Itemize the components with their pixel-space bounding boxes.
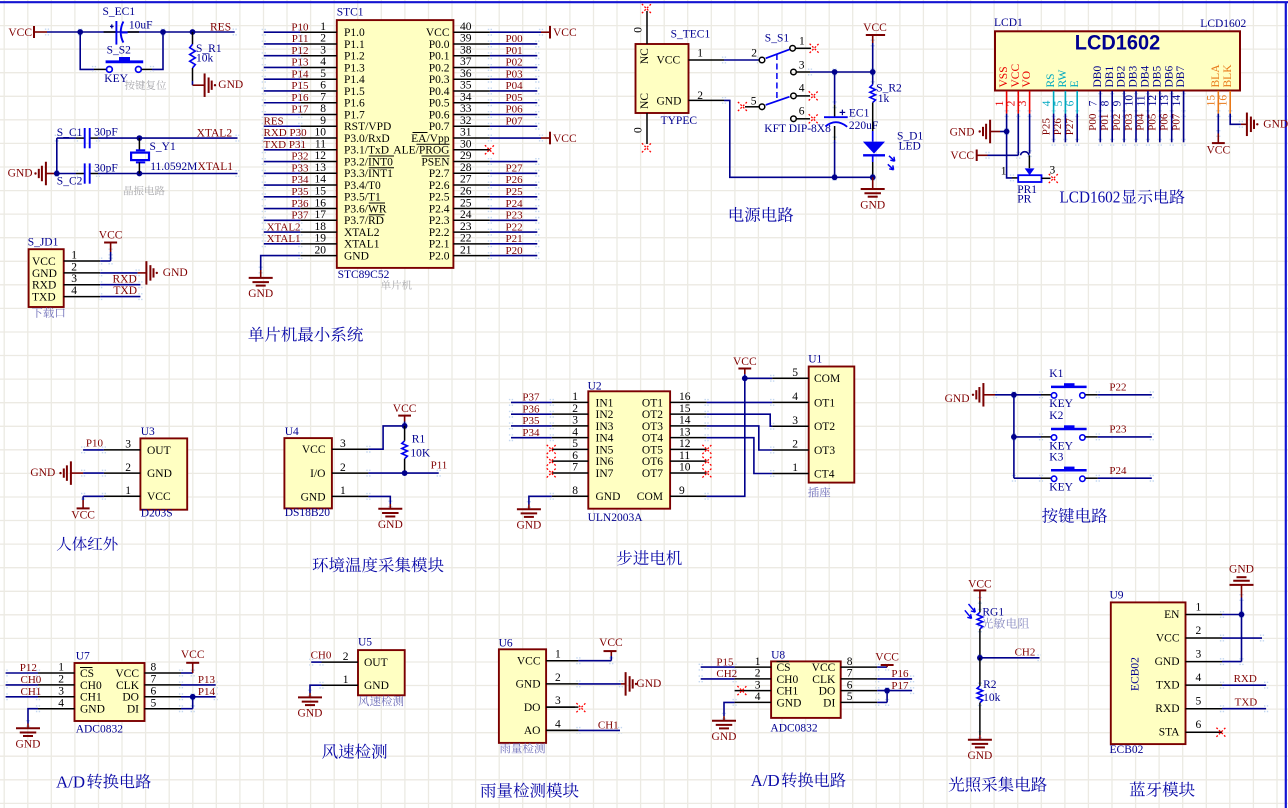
svg-text:0: 0	[633, 127, 645, 133]
caption 光照采集电路	[949, 777, 1047, 792]
svg-text:P14: P14	[198, 686, 216, 698]
caption 人体红外	[57, 537, 118, 551]
svg-text:29: 29	[460, 150, 472, 162]
wire P13 net (U7 pin7)	[181, 674, 216, 686]
svg-text:16: 16	[315, 197, 327, 209]
svg-text:9: 9	[1112, 100, 1124, 106]
svg-text:4: 4	[71, 285, 77, 297]
wire P10 net (U3 pin3)	[83, 438, 104, 450]
svg-text:P1.7: P1.7	[344, 109, 365, 121]
svg-text:10k: 10k	[983, 692, 1001, 704]
svg-text:14: 14	[1171, 95, 1183, 107]
svg-text:P06: P06	[506, 104, 524, 116]
svg-text:25: 25	[460, 197, 472, 209]
caption 按键电路	[1042, 508, 1107, 523]
wire TXD net (U9 pin5)	[1222, 697, 1266, 709]
svg-text:10uF: 10uF	[129, 20, 153, 32]
svg-text:COM: COM	[814, 373, 840, 385]
svg-text:1: 1	[125, 485, 131, 497]
wire reset key left branch	[80, 32, 106, 69]
power port VCC (stepper)	[733, 356, 757, 378]
svg-text:DB2: DB2	[1116, 66, 1128, 88]
svg-text:STC1: STC1	[337, 6, 364, 18]
pin 0 top of S_TEC1 with no-connect X	[633, 4, 652, 44]
svg-text:3: 3	[755, 679, 761, 691]
svg-text:P03: P03	[506, 68, 524, 80]
svg-text:1: 1	[58, 662, 64, 674]
no connect X (MCU pin30)	[485, 145, 494, 154]
svg-text:0: 0	[633, 27, 645, 33]
svg-text:KFT DIP-8X8: KFT DIP-8X8	[764, 123, 831, 135]
svg-text:GND: GND	[16, 739, 41, 751]
power port GND (light)	[967, 735, 992, 762]
caption 雨量检测模块	[481, 783, 579, 798]
svg-text:P01: P01	[1099, 114, 1111, 131]
svg-text:XTAL2: XTAL2	[267, 221, 301, 233]
svg-text:7: 7	[151, 674, 157, 686]
svg-text:8: 8	[847, 656, 853, 668]
wire VSS to PR1	[1001, 132, 1018, 178]
svg-text:TXD: TXD	[113, 285, 137, 297]
svg-text:P32: P32	[291, 151, 308, 163]
svg-text:19: 19	[315, 233, 327, 245]
svg-text:2: 2	[572, 403, 578, 415]
svg-text:AO: AO	[524, 725, 541, 737]
svg-text:A/D: A/D	[751, 771, 780, 790]
svg-text:3: 3	[125, 439, 131, 451]
svg-text:P17: P17	[891, 680, 909, 692]
svg-text:CH1: CH1	[21, 686, 42, 698]
caption 蓝牙模块	[1130, 782, 1195, 797]
resistor S_R2 1k	[870, 72, 902, 142]
wire CH2 net (light)	[980, 646, 1040, 658]
svg-text:NC: NC	[639, 48, 651, 64]
svg-text:P12: P12	[20, 662, 37, 674]
net labels P10-P17	[291, 21, 309, 115]
connector S_JD1	[28, 237, 64, 308]
svg-text:DB7: DB7	[1175, 66, 1187, 88]
svg-text:OT3: OT3	[642, 421, 663, 433]
wire CH2 net (U8 pin2)	[701, 668, 737, 680]
svg-text:P3.6/WR: P3.6/WR	[344, 203, 387, 215]
caption 插座	[808, 487, 830, 498]
wire U2 COM to VCC rail	[707, 378, 773, 496]
svg-text:VCC: VCC	[1206, 144, 1230, 156]
push button K3 KEY	[1014, 451, 1152, 493]
junction	[742, 375, 748, 381]
no connect X (U8 pin3)	[737, 686, 746, 695]
svg-text:5: 5	[792, 367, 798, 379]
power port VCC (light)	[968, 578, 992, 612]
svg-text:13: 13	[1159, 95, 1171, 107]
svg-text:12: 12	[679, 438, 691, 450]
MCU pin numbers	[315, 21, 472, 256]
svg-text:2: 2	[1006, 100, 1018, 106]
svg-text:38: 38	[460, 44, 472, 56]
svg-text:P2.4: P2.4	[429, 203, 450, 215]
svg-text:16: 16	[1218, 95, 1230, 107]
svg-text:VCC: VCC	[1156, 632, 1180, 644]
svg-text:U5: U5	[358, 636, 372, 648]
svg-text:6: 6	[320, 80, 326, 92]
junction	[1011, 434, 1017, 440]
wire P14 net (U7 pin6)	[181, 686, 216, 698]
svg-text:P0.1: P0.1	[429, 51, 450, 63]
svg-text:S_TEC1: S_TEC1	[671, 28, 711, 40]
svg-text:VCC: VCC	[71, 510, 95, 522]
svg-text:GND: GND	[516, 520, 541, 532]
svg-text:P1.2: P1.2	[344, 51, 365, 63]
svg-text:1: 1	[343, 674, 349, 686]
LCD pin names	[998, 64, 1234, 88]
svg-text:P25: P25	[506, 186, 524, 198]
svg-text:D203S: D203S	[141, 508, 173, 520]
svg-text:RXD P30: RXD P30	[264, 127, 308, 139]
svg-text:GND: GND	[657, 96, 682, 108]
svg-text:CH1: CH1	[80, 692, 102, 704]
caption 风速检测 small	[358, 696, 403, 707]
svg-text:1: 1	[697, 48, 703, 60]
wire crystal left vertical	[56, 138, 58, 173]
svg-text:LCD1: LCD1	[994, 17, 1023, 29]
svg-text:P2.6: P2.6	[429, 180, 450, 192]
svg-text:12: 12	[315, 150, 327, 162]
svg-text:EN: EN	[1164, 609, 1180, 621]
power port GND (U8 pin4)	[712, 702, 737, 743]
junction	[1004, 129, 1010, 135]
push button S_S2 KEY	[104, 44, 143, 85]
svg-text:P23: P23	[1109, 424, 1127, 436]
svg-text:OT1: OT1	[814, 397, 835, 409]
IC U8 ADC0832 body	[735, 650, 878, 735]
wire U4 pin3 to VCC	[368, 426, 404, 449]
svg-text:U9: U9	[1110, 589, 1124, 601]
wire CH0 net (U7 pin2)	[6, 674, 42, 686]
power port GND (U5 pin1)	[298, 685, 323, 720]
svg-text:3: 3	[1196, 648, 1202, 660]
svg-text:P24: P24	[1109, 465, 1127, 477]
svg-text:VCC: VCC	[181, 649, 205, 661]
svg-text:11: 11	[679, 450, 690, 462]
svg-text:K2: K2	[1049, 410, 1063, 422]
wire U9 pin1 EN	[1222, 614, 1242, 616]
svg-text:8: 8	[320, 103, 326, 115]
wire S_S1 pin3 to VCC rail	[796, 71, 872, 73]
svg-text:P35: P35	[291, 186, 309, 198]
crystal S_Y1 11.0592M	[131, 138, 197, 173]
no connect X (U6 pin3)	[546, 703, 586, 712]
svg-text:34: 34	[460, 91, 472, 103]
svg-text:GND: GND	[298, 708, 323, 720]
svg-text:7: 7	[1088, 100, 1100, 106]
svg-text:NC: NC	[639, 93, 651, 109]
junction	[137, 171, 143, 177]
no connect X (U2 pin6)	[547, 457, 556, 466]
svg-text:VCC: VCC	[99, 229, 123, 241]
svg-text:P13: P13	[198, 674, 216, 686]
capacitor S_EC1 10uF	[103, 6, 153, 45]
svg-text:4: 4	[755, 691, 761, 703]
svg-text:S_JD1: S_JD1	[28, 237, 59, 249]
svg-text:4: 4	[572, 426, 578, 438]
svg-text:9: 9	[320, 115, 326, 127]
svg-text:2: 2	[343, 651, 349, 663]
svg-text:IN7: IN7	[596, 468, 614, 480]
svg-text:GND: GND	[1263, 118, 1288, 130]
svg-text:P00: P00	[506, 33, 524, 45]
svg-text:BLK: BLK	[1222, 64, 1234, 88]
svg-text:10k: 10k	[196, 53, 214, 65]
net labels P32-P37	[291, 151, 309, 222]
power port GND (crystal)	[8, 162, 57, 186]
svg-text:GND: GND	[32, 268, 57, 280]
svg-text:RXD: RXD	[1155, 703, 1179, 715]
svg-text:GND: GND	[1155, 656, 1180, 668]
svg-text:4: 4	[1041, 100, 1053, 106]
svg-text:GND: GND	[163, 267, 188, 279]
power port VCC (U6 pin1)	[578, 637, 623, 661]
junction	[190, 29, 196, 35]
svg-text:S_C1: S_C1	[57, 127, 83, 139]
pin 0 bottom of S_TEC1 with no-connect X	[633, 113, 652, 152]
svg-text:1: 1	[799, 35, 805, 47]
IC U3 D203S body	[104, 426, 187, 520]
svg-text:GND: GND	[712, 731, 737, 743]
svg-text:P16: P16	[291, 92, 309, 104]
svg-text:GND: GND	[596, 491, 621, 503]
svg-text:CLK: CLK	[812, 674, 836, 686]
svg-text:P01: P01	[506, 45, 523, 57]
svg-text:DB1: DB1	[1104, 66, 1116, 88]
caption A/D转换电路 (left)	[56, 772, 151, 791]
wire P12 net (U7 pin1)	[6, 662, 38, 674]
svg-text:P02: P02	[1111, 114, 1123, 131]
no connect X (PR1 pin3)	[1042, 164, 1059, 183]
svg-text:5: 5	[751, 95, 757, 107]
wire U8 pin5 to pin6	[877, 691, 887, 703]
pin 2 of S_JD1	[64, 261, 100, 273]
svg-text:PR: PR	[1017, 194, 1031, 206]
junction	[402, 470, 408, 476]
power port GND (U2 pin8)	[516, 496, 551, 531]
svg-text:XTAL1: XTAL1	[267, 233, 301, 245]
svg-text:EC1: EC1	[849, 108, 870, 120]
MCU right pin wires	[453, 32, 537, 255]
svg-text:S_C2: S_C2	[57, 175, 83, 187]
svg-text:TXD: TXD	[32, 292, 56, 304]
svg-text:2: 2	[792, 439, 798, 451]
svg-text:OT4: OT4	[642, 433, 663, 445]
svg-text:P06: P06	[1159, 113, 1171, 131]
wire reset key right branch	[142, 32, 164, 69]
svg-text:DI: DI	[127, 704, 139, 716]
svg-text:VCC: VCC	[393, 403, 417, 415]
wire TXD net	[100, 285, 140, 297]
svg-text:VSS: VSS	[998, 66, 1010, 87]
svg-text:P2.7: P2.7	[429, 168, 450, 180]
svg-text:7: 7	[847, 668, 853, 680]
svg-text:P27: P27	[506, 162, 524, 174]
svg-text:6: 6	[1196, 719, 1202, 731]
wire CH0 net (U5 pin2)	[311, 650, 332, 662]
svg-text:P1.1: P1.1	[344, 39, 365, 51]
no connect X (U2 pin10)	[702, 468, 711, 477]
svg-text:P1.5: P1.5	[344, 86, 365, 98]
svg-text:GND: GND	[364, 680, 389, 692]
svg-text:RW: RW	[1057, 69, 1069, 87]
svg-text:VO: VO	[1021, 71, 1033, 88]
svg-text:5: 5	[1053, 100, 1065, 106]
svg-text:U7: U7	[76, 651, 90, 663]
svg-text:3: 3	[1050, 164, 1056, 176]
svg-text:1: 1	[792, 462, 798, 474]
svg-text:P10: P10	[291, 21, 309, 33]
svg-text:OUT: OUT	[364, 657, 388, 669]
svg-text:CH2: CH2	[716, 668, 737, 680]
svg-text:P13: P13	[291, 57, 309, 69]
svg-text:4: 4	[58, 697, 64, 709]
wire RXD net	[100, 274, 140, 286]
svg-text:7: 7	[572, 462, 578, 474]
svg-text:1k: 1k	[878, 93, 890, 105]
svg-text:GND: GND	[378, 519, 403, 531]
svg-text:CH2: CH2	[1015, 646, 1036, 658]
svg-text:2: 2	[751, 48, 757, 60]
svg-text:5: 5	[1196, 696, 1202, 708]
svg-text:VCC: VCC	[517, 656, 541, 668]
wire U2 OT3 to U1 pin2	[707, 426, 773, 450]
power port VCC (reset rail)	[8, 26, 47, 39]
power port GND (reset)	[193, 73, 244, 97]
svg-text:ECB02: ECB02	[1110, 744, 1144, 756]
svg-text:1: 1	[555, 649, 561, 661]
svg-text:P3.0/RxD: P3.0/RxD	[344, 133, 390, 145]
svg-text:CS: CS	[80, 668, 94, 680]
svg-text:ULN2003A: ULN2003A	[588, 512, 644, 524]
wire LCD pin1 VSS	[1006, 114, 1008, 132]
wire VCC rail to RES	[47, 31, 235, 33]
photoresistor RG1	[965, 604, 1005, 629]
IC U5 wind sensor body	[322, 636, 405, 695]
svg-text:U6: U6	[499, 638, 513, 650]
svg-text:VCC: VCC	[875, 652, 899, 664]
power port GND (keys)	[945, 383, 1014, 407]
svg-text:P3.7/RD: P3.7/RD	[344, 215, 384, 227]
svg-text:RST/VPD: RST/VPD	[344, 121, 391, 133]
svg-text:P1.4: P1.4	[344, 74, 365, 86]
svg-text:RXD: RXD	[113, 274, 137, 286]
svg-text:GND: GND	[344, 250, 369, 262]
svg-text:P03: P03	[1123, 113, 1135, 131]
svg-text:OT7: OT7	[642, 468, 663, 480]
svg-text:DS18B20: DS18B20	[285, 507, 331, 519]
svg-text:P34: P34	[291, 174, 309, 186]
svg-text:GND: GND	[248, 288, 273, 300]
svg-text:1: 1	[340, 485, 346, 497]
svg-text:CS: CS	[777, 662, 791, 674]
svg-text:P2.0: P2.0	[429, 250, 450, 262]
svg-text:P0.0: P0.0	[429, 39, 450, 51]
svg-text:4: 4	[555, 718, 561, 730]
push button K2 KEY	[1014, 410, 1152, 452]
svg-text:1: 1	[320, 21, 326, 33]
caption 单片机	[381, 280, 412, 290]
resistor S_R1 10k	[190, 32, 222, 85]
power port VCC (MCU pin31 EA)	[490, 132, 577, 145]
power port VCC (U3 pin1)	[71, 496, 104, 521]
svg-text:6: 6	[572, 450, 578, 462]
svg-text:GND: GND	[860, 199, 885, 211]
svg-text:11: 11	[1135, 95, 1147, 106]
svg-text:P3.4/T0: P3.4/T0	[344, 180, 381, 192]
svg-text:39: 39	[460, 33, 472, 45]
svg-text:U1: U1	[808, 354, 822, 366]
svg-text:27: 27	[460, 174, 472, 186]
svg-text:3: 3	[340, 438, 346, 450]
svg-text:P05: P05	[1147, 113, 1159, 131]
svg-text:RXD: RXD	[1234, 673, 1257, 685]
svg-text:S_Y1: S_Y1	[150, 141, 176, 153]
svg-text:K1: K1	[1049, 368, 1063, 380]
svg-text:CH0: CH0	[21, 674, 42, 686]
svg-text:17: 17	[315, 209, 327, 221]
svg-text:ADC0832: ADC0832	[76, 724, 124, 736]
svg-text:P1.0: P1.0	[344, 27, 365, 39]
svg-text:11.0592M: 11.0592M	[150, 161, 197, 173]
power port GND (LCD VSS)	[950, 120, 1007, 144]
junction	[77, 29, 83, 35]
svg-text:10: 10	[315, 127, 327, 139]
svg-text:BLA: BLA	[1210, 64, 1222, 88]
switch S_S1 KFT DIP-8X8	[751, 32, 831, 135]
svg-text:7: 7	[320, 91, 326, 103]
MCU pin names	[344, 27, 450, 262]
svg-text:OT3: OT3	[814, 445, 835, 457]
svg-text:P37: P37	[291, 210, 309, 222]
svg-text:14: 14	[679, 415, 691, 427]
wire XTAL2 net	[57, 137, 238, 139]
caption 雨量检测 small	[500, 743, 545, 754]
svg-text:P3.5/T1: P3.5/T1	[344, 192, 381, 204]
wires P37-P34 nets (U2 pins1-4)	[511, 392, 552, 439]
svg-text:6: 6	[1065, 100, 1077, 106]
wire LCD pin3 VO with hop	[1021, 114, 1030, 169]
svg-text:E: E	[1069, 80, 1081, 87]
svg-text:CH0: CH0	[777, 674, 799, 686]
svg-text:GND: GND	[636, 678, 661, 690]
svg-text:2: 2	[58, 674, 64, 686]
svg-text:DB6: DB6	[1163, 66, 1175, 88]
wire U2 OT2 to U1 pin3	[707, 414, 773, 426]
IC U9 ECB02 body	[1110, 589, 1223, 756]
power port GND (U6 pin2)	[578, 672, 661, 696]
power port GND (U4 pin1)	[368, 496, 402, 531]
capacitor S_C2 30pF	[57, 163, 118, 188]
svg-text:35: 35	[460, 80, 472, 92]
svg-text:P17: P17	[291, 104, 309, 116]
wires LCD pins 4-14	[1054, 114, 1184, 143]
wire P17 net (U8 pin6)	[877, 680, 912, 692]
caption 晶振电路	[124, 186, 165, 196]
svg-text:GND: GND	[1229, 564, 1254, 576]
wire key ground rail	[1013, 395, 1015, 478]
svg-text:GND: GND	[945, 393, 970, 405]
svg-text:DB5: DB5	[1151, 66, 1163, 88]
svg-text:P04: P04	[506, 80, 524, 92]
svg-text:37: 37	[460, 56, 472, 68]
svg-text:P33: P33	[291, 162, 309, 174]
svg-text:15: 15	[1206, 95, 1218, 107]
